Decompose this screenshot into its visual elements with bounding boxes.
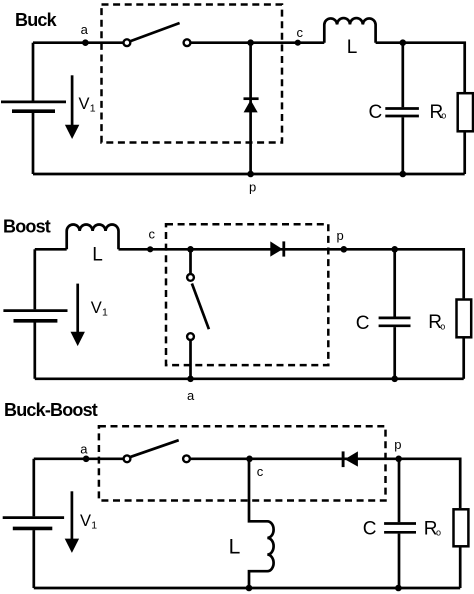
svg-text:C: C — [363, 519, 377, 540]
svg-text:Buck-Boost: Buck-Boost — [4, 400, 98, 420]
svg-text:p: p — [337, 228, 344, 243]
svg-text:1: 1 — [102, 307, 108, 319]
svg-text:c: c — [149, 227, 156, 242]
svg-text:Boost: Boost — [3, 217, 51, 237]
svg-text:a: a — [81, 22, 89, 37]
svg-text:a: a — [187, 388, 195, 403]
svg-text:a: a — [80, 442, 88, 457]
svg-text:V: V — [80, 512, 91, 530]
svg-text:c: c — [297, 25, 304, 40]
svg-text:p: p — [394, 437, 401, 452]
svg-text:C: C — [369, 102, 383, 123]
svg-text:o: o — [441, 111, 446, 121]
svg-text:C: C — [356, 313, 370, 334]
svg-text:V: V — [91, 299, 102, 317]
svg-text:L: L — [347, 37, 358, 58]
svg-text:V: V — [79, 95, 90, 113]
svg-text:Buck: Buck — [15, 10, 58, 30]
svg-text:L: L — [92, 244, 103, 265]
svg-text:o: o — [440, 321, 445, 331]
svg-text:p: p — [249, 180, 256, 195]
svg-text:L: L — [229, 535, 241, 558]
svg-text:1: 1 — [91, 520, 97, 532]
svg-text:o: o — [436, 528, 441, 538]
svg-text:1: 1 — [90, 103, 96, 115]
svg-text:c: c — [257, 464, 264, 479]
